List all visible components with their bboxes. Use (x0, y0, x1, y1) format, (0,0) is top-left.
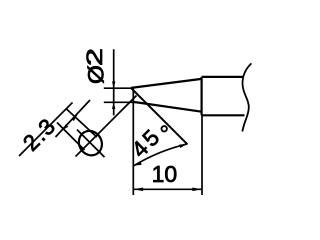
arrow ø2 lower (pointing up at bottom ext line) (112, 102, 115, 109)
degree ring of 45° label (162, 126, 167, 131)
svg-text:2: 2 (82, 48, 107, 66)
arrow 2.3 lower-left (pointing down-left at tick A) (62, 124, 68, 130)
ø2 top extension line (104, 87, 131, 89)
arrow ø2 upper (pointing down at top ext line) (112, 82, 115, 89)
svg-text:Ø: Ø (83, 65, 108, 84)
break line (S-curve) at right end (242, 63, 251, 131)
arrow 2.3 upper-right (pointing up-right at tick B) (71, 115, 77, 121)
ellipse major-axis centerline (77, 130, 105, 158)
cone top outline (131, 79, 202, 88)
arrow 10 right (pointing right) (192, 188, 202, 192)
10 dimension line (133, 188, 202, 190)
arrow 45° arc upper end (pointing up-right at bevel line) (179, 144, 187, 148)
2.3 extension tick A (lower-left tangent) (57, 123, 85, 151)
tip face ellipse (75, 127, 107, 160)
10 extension line left (from apex down) (132, 88, 134, 195)
2.3 leader line under text (19, 103, 73, 157)
2.3 extension tick B (upper-right tangent) (67, 109, 97, 137)
cone bottom outline (133, 102, 201, 112)
arrow 10 left (pointing left) (134, 188, 144, 192)
arrow 45° arc lower end (pointing left at vertical ext) (134, 161, 142, 166)
bevel face edge (45° cut) extended as dimension line (131, 88, 188, 144)
10 extension line right (below shank) (201, 115, 203, 195)
shank left edge (201, 77, 203, 115)
ø2 dimension line (113, 49, 115, 115)
45° angle arc (134, 144, 188, 166)
shank bottom outline (202, 114, 245, 116)
svg-text:10: 10 (152, 161, 178, 187)
face axis line through ellipse (76, 96, 137, 157)
shank top outline (202, 76, 244, 78)
2.3 dimension line (56, 100, 91, 137)
ø2 bottom extension line (104, 101, 136, 103)
